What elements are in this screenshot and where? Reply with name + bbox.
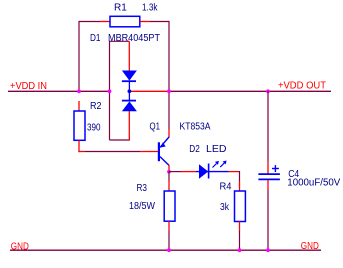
wire R3 to GND — [168, 231, 170, 250]
junction dot collector node (169,171.6) — [167, 170, 171, 174]
wire +VDD OUT down to C4 — [267, 91, 269, 161]
diode D2 anode pin — [181, 171, 196, 173]
junction dot C4 at GND (268,250) — [266, 248, 270, 252]
resistor R4 pin bottom — [239, 222, 241, 232]
capacitor C4 pin bottom — [267, 180, 269, 190]
resistor R1 pin right — [140, 21, 150, 23]
svg-text:D2: D2 — [189, 144, 200, 155]
svg-text:+VDD IN: +VDD IN — [10, 81, 47, 92]
wire collector node down to R3 — [168, 172, 170, 181]
svg-text:D1: D1 — [90, 33, 101, 44]
wire D1 anode loop (left vertical, top and bottom horizontals) — [109, 41, 130, 140]
svg-text:18/5W: 18/5W — [129, 201, 156, 212]
wire collector to LED — [169, 171, 181, 173]
diode D2 LED body — [196, 164, 229, 179]
transistor Q1 emitter pin (red, from rail) — [168, 129, 170, 138]
svg-text:Q1: Q1 — [150, 121, 161, 132]
resistor R1 pin left — [100, 21, 110, 23]
resistor R2 pin top — [78, 101, 80, 111]
wire R1 right column to emitter x=169 — [150, 21, 169, 129]
svg-text:R1: R1 — [114, 3, 127, 14]
svg-text:390: 390 — [87, 122, 101, 133]
wire C4 to GND — [267, 190, 269, 250]
resistor R3 pin bottom — [168, 221, 170, 231]
wire LED to R4 corner — [239, 171, 240, 181]
transistor Q1 body (PNP: bar, emitter with arrow, collector) — [159, 137, 169, 165]
junction dot at (268,91) — [266, 89, 270, 93]
wire +VDD OUT rail red segment from diode cathode to emitter node — [129, 90, 169, 92]
transistor Q1 collector pin — [168, 165, 170, 172]
resistor R1 body — [110, 16, 140, 27]
diode D1 upper anode pin — [128, 41, 130, 71]
svg-text:R3: R3 — [137, 183, 148, 194]
diode D1 upper (cathode down) — [122, 71, 137, 92]
svg-text:KT853A: KT853A — [180, 121, 211, 132]
svg-text:1.3k: 1.3k — [142, 3, 158, 14]
svg-text:LED: LED — [206, 144, 227, 155]
junction dot at (79,91) — [77, 89, 81, 93]
capacitor C4 pin top — [267, 161, 269, 174]
diode D1 lower (cathode up) — [122, 91, 137, 111]
resistor R3 pin top — [168, 181, 170, 191]
wire GND rail — [10, 249, 321, 251]
diode D2 cathode pin — [229, 171, 239, 173]
svg-text:GND: GND — [11, 241, 29, 252]
resistor R3 body — [164, 191, 175, 221]
junction dot diode common cathode (129.4,91) — [127, 89, 131, 93]
diode D2 emission arrow 2 — [220, 161, 226, 168]
svg-text:GND: GND — [301, 241, 319, 252]
wire Q1 base from R2 — [85, 151, 140, 153]
resistor R2 pin bottom — [78, 140, 85, 152]
resistor R4 body — [235, 191, 246, 222]
svg-text:3k: 3k — [220, 202, 230, 213]
resistor R4 pin top — [239, 181, 241, 191]
junction dot R3 at GND (169,250) — [167, 248, 171, 252]
capacitor C4 plus sign — [272, 165, 279, 172]
wire R4 to GND — [239, 231, 241, 250]
svg-text:R2: R2 — [90, 101, 102, 112]
wire R1 left column x=79 — [79, 21, 100, 91]
junction dot R4 at GND (239.5,250) — [238, 248, 242, 252]
svg-text:MBR4045PT: MBR4045PT — [108, 33, 160, 44]
diode D1 lower anode pin — [128, 111, 130, 140]
diode D2 emission arrow 1 — [213, 161, 219, 168]
wire +VDD IN rail (y=91) — [8, 90, 110, 92]
svg-text:1000uF/50V: 1000uF/50V — [287, 178, 340, 189]
junction dot at (109.5,91) — [108, 89, 112, 93]
resistor R2 body — [74, 111, 85, 140]
wire +VDD OUT rail maroon segment — [169, 90, 331, 92]
svg-text:R4: R4 — [220, 182, 232, 193]
transistor Q1 base pin — [140, 151, 158, 153]
capacitor C4 plates — [258, 174, 280, 179]
svg-text:+VDD OUT: +VDD OUT — [278, 80, 326, 91]
junction dot at (169,91) — [167, 89, 171, 93]
